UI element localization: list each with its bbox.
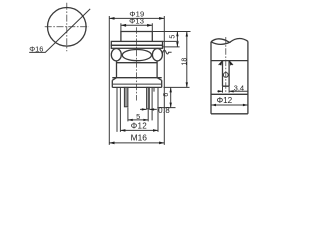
blade top arrow tails — [219, 61, 233, 65]
ext line head top to right — [163, 40, 179, 42]
top view circle (button head, left view) — [48, 8, 87, 47]
6 dim line vertical (pin length) — [170, 87, 172, 107]
horizontal centerline — [45, 26, 89, 28]
nut right oval — [152, 49, 162, 61]
M16 arrows — [109, 142, 164, 145]
base flange sides — [112, 80, 161, 87]
svg-text:0.8: 0.8 — [158, 106, 170, 115]
svg-text:18: 18 — [181, 58, 188, 66]
extension line c (right of pins) — [151, 87, 153, 120]
nut left oval — [111, 49, 121, 61]
svg-text:5: 5 — [136, 112, 140, 121]
side view arrowheads — [211, 61, 248, 107]
svg-text:M16: M16 — [131, 132, 148, 142]
O12 arrows — [120, 129, 158, 132]
ext line from plunger top to right — [152, 31, 190, 33]
svg-text:Φ12: Φ12 — [217, 96, 233, 105]
extension line a (left of pins) — [116, 87, 118, 131]
base flange bottom line — [112, 86, 161, 88]
0.8 dim lines — [140, 108, 157, 110]
ext line body bottom to right — [164, 86, 190, 88]
18 arrows — [186, 32, 188, 88]
0.8 arrows — [142, 108, 154, 110]
front view centerline — [136, 27, 138, 100]
front view: left outer extension line (O19/M16) — [108, 16, 110, 145]
O12 side arrows — [211, 104, 248, 107]
side view left side — [210, 42, 212, 114]
squiggle at nut right — [162, 50, 171, 54]
actuator plunger rect — [121, 32, 152, 42]
side view right side — [247, 41, 249, 114]
front view: right outer extension line (O19/M16) — [163, 16, 165, 145]
threaded body sides — [117, 61, 158, 78]
18 dim line vertical — [186, 32, 188, 88]
leader line for O16 — [29, 9, 90, 53]
base flange inner line — [113, 83, 161, 85]
5 bottom arrows — [128, 119, 148, 121]
svg-text:Φ16: Φ16 — [29, 45, 43, 54]
base flange chamfers — [112, 78, 161, 81]
svg-text:3.4: 3.4 — [234, 84, 245, 93]
5 top arrows — [176, 32, 178, 47]
head bezel band 2 — [111, 45, 162, 48]
pin base tick — [153, 87, 155, 91]
head bezel band 1 — [111, 41, 162, 45]
ext line band bottom to right — [163, 46, 180, 48]
O19 arrows — [109, 17, 164, 20]
M16 dimension line — [109, 142, 164, 144]
arrowheads front view — [109, 17, 188, 144]
extension line b (O12 left) — [119, 87, 121, 131]
terminal hole — [223, 73, 228, 78]
O19 dimension line — [109, 17, 164, 19]
broken-off wavy top: right arc — [230, 39, 248, 43]
ext line pin bottom for 6 dim — [157, 107, 175, 109]
broken-off wavy top: lens — [211, 39, 230, 45]
5 dim line vertical (plunger height) — [176, 32, 178, 47]
extension line d (O12 right) — [157, 87, 159, 131]
5 dimension line (pin spacing) — [128, 119, 148, 121]
blade extension lines — [223, 86, 230, 92]
6 arrows — [170, 87, 172, 107]
body top line — [117, 62, 158, 64]
svg-text:Φ12: Φ12 — [131, 121, 148, 130]
O13 arrows — [121, 24, 152, 27]
svg-text:Φ13: Φ13 — [129, 17, 144, 26]
blade corner arrows — [219, 61, 232, 66]
O12 dimension line — [120, 129, 158, 131]
side view centerline — [225, 37, 227, 94]
left terminal pin — [124, 87, 128, 106]
base flange top line — [112, 77, 161, 79]
3.4 arrows — [218, 90, 234, 92]
3.4 dim line — [217, 90, 248, 92]
nut middle oval — [122, 50, 151, 61]
svg-text:6: 6 — [163, 93, 170, 97]
pin 5 spacing extension lines — [128, 88, 148, 121]
O13 dimension line — [121, 24, 152, 26]
side view line under blade — [211, 93, 248, 95]
O13 extension lines — [121, 23, 152, 31]
O12 side dim line — [211, 104, 248, 106]
terminal blade side view — [223, 61, 230, 87]
right terminal pin — [147, 87, 150, 108]
svg-text:5: 5 — [169, 35, 176, 39]
side view bottom line — [211, 113, 248, 115]
vertical centerline — [66, 3, 68, 51]
side view base bottom line — [211, 60, 248, 62]
